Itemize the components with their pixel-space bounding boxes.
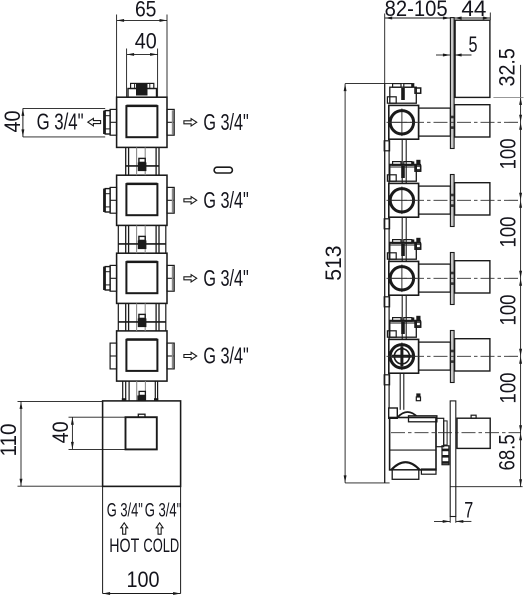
svg-text:G 3/4": G 3/4" xyxy=(203,109,248,135)
svg-text:65: 65 xyxy=(135,0,157,22)
label HOT xyxy=(109,535,139,557)
valve body block V3 (side view) xyxy=(389,261,419,295)
label G 3/4 inch outlet V2 xyxy=(203,187,248,213)
thermostat handle (side view) xyxy=(457,418,490,448)
centerline valve V4 (side view) xyxy=(387,355,521,357)
label COLD xyxy=(143,535,179,557)
bolt above thermostat box xyxy=(137,391,146,400)
valve V2 inner square (cartridge face) xyxy=(126,183,157,215)
left inlet port valve V1 xyxy=(110,109,117,135)
dimension text 100 v2-v3 (rotated) xyxy=(496,217,521,248)
label G 3/4 inch outlet V4 xyxy=(203,343,248,369)
thermostat main block (side view) xyxy=(390,418,436,470)
back rail clip below valve V3 xyxy=(384,297,389,307)
svg-text:G 3/4": G 3/4" xyxy=(203,343,248,369)
thermostat bottom dome xyxy=(391,462,419,470)
top escutcheon box (side view) xyxy=(455,20,490,97)
dimension 40 (thermostat square) xyxy=(69,417,126,449)
thermostat safety button nub xyxy=(138,414,145,417)
left clip at thermostat top xyxy=(389,408,398,418)
connecting pipe between V3 and V4 (side view) xyxy=(389,295,406,339)
slot pill marker xyxy=(214,167,232,173)
thermostat bottom base xyxy=(392,470,419,479)
svg-text:G 3/4": G 3/4" xyxy=(145,501,182,522)
dimension text 65 xyxy=(135,0,157,22)
extension lines 40 xyxy=(127,49,158,98)
valve body block V1 (side view) xyxy=(389,105,419,139)
hollow arrow right outlet V4 xyxy=(184,352,197,359)
valve V4 inner square (cartridge face) xyxy=(126,339,157,371)
label G 3/4 inch outlet V3 xyxy=(203,265,248,291)
trim plate segment V2 xyxy=(450,175,454,227)
plate screws V1 xyxy=(451,116,454,129)
check valve hex (side view) xyxy=(442,446,450,465)
dimension text 7 xyxy=(464,498,473,523)
wall back line (side view) xyxy=(384,84,386,483)
dimension text 513 (rotated) xyxy=(321,245,346,280)
drain bolt between V1 and V2 xyxy=(138,158,147,171)
right outlet port valve V3 xyxy=(167,265,174,291)
thermostat handle safety nub xyxy=(471,415,476,418)
box side extension lines down to 100 dim xyxy=(103,486,181,593)
top cartridge cap above valve 1 xyxy=(128,83,157,97)
pipes from valve V4 down to thermostat box xyxy=(123,381,158,401)
dimension text 44 xyxy=(461,0,486,21)
thermostat right steps xyxy=(444,421,447,445)
thermostat cartridge square xyxy=(126,417,157,449)
centerline valve V2 (side view) xyxy=(387,199,521,201)
hollow arrow right outlet V2 xyxy=(184,197,197,204)
valve body V2 (front view) xyxy=(117,175,167,225)
connector pipes between V3 and V4 xyxy=(118,303,166,331)
svg-text:100: 100 xyxy=(127,567,160,592)
dimension 100 (box width, bottom) xyxy=(103,592,181,595)
thermostat top slab (side view) xyxy=(409,416,437,422)
left hex nut valve V1 xyxy=(104,111,110,134)
thermostat right plate (side view) xyxy=(436,418,444,446)
svg-text:100: 100 xyxy=(496,217,521,248)
label G 3/4 hot bottom xyxy=(107,501,143,522)
union joint line between V3 and V4 xyxy=(118,321,166,323)
dimension text 100 v4-thermostat (rotated) xyxy=(496,373,521,404)
centerline valve V1 (side view) xyxy=(387,121,521,123)
connecting pipe between V1 and V2 (side view) xyxy=(389,139,406,183)
dimension text 40 (rotated, port) xyxy=(0,111,25,133)
svg-text:G 3/4": G 3/4" xyxy=(203,265,248,291)
hollow arrow left (hot inlet) xyxy=(88,118,101,125)
mounting bracket above valve V3 xyxy=(387,239,420,259)
connecting pipe between V2 and V3 (side view) xyxy=(389,217,406,261)
trim plate bottom segment (side view) xyxy=(450,401,456,517)
svg-text:82-105: 82-105 xyxy=(385,0,448,21)
svg-text:40: 40 xyxy=(48,421,73,443)
svg-text:7: 7 xyxy=(464,498,473,523)
valve body block V4 (side view) xyxy=(389,339,419,373)
cartridge circle V2 xyxy=(390,187,417,215)
trim plate segment V4 xyxy=(450,331,454,383)
svg-text:G 3/4": G 3/4" xyxy=(37,109,84,135)
label G 3/4 inch outlet V1 xyxy=(203,109,248,135)
svg-text:100: 100 xyxy=(496,295,521,326)
left inlet port valve V2 xyxy=(110,187,117,213)
chain arrows xyxy=(519,97,522,486)
mounting bracket above valve V1 xyxy=(387,83,420,103)
valve body V4 (front view) xyxy=(117,331,167,381)
plate screws V4 xyxy=(451,350,454,363)
svg-text:44: 44 xyxy=(461,0,486,21)
union joint line between V2 and V3 xyxy=(118,243,166,245)
svg-text:5: 5 xyxy=(469,32,478,57)
centerline valve V3 (side view) xyxy=(387,277,521,279)
handle block V2 (side view) xyxy=(455,183,490,215)
svg-text:G 3/4": G 3/4" xyxy=(203,187,248,213)
chain tick at plate bottom edge xyxy=(493,96,523,98)
union joint between V2 and V3 (side view) xyxy=(389,238,420,248)
cartridge circle V3 xyxy=(390,265,417,293)
dimension text 82-105 xyxy=(385,0,448,21)
dimension 65 (top overall width) xyxy=(117,19,167,22)
dimension text 100 v3-v4 (rotated) xyxy=(496,295,521,326)
dimension 5 (trim plate thickness) xyxy=(436,54,472,57)
trim plate top segment (side view) xyxy=(450,18,454,149)
valve stem V4 (side view) xyxy=(419,342,451,370)
left inlet port valve V3 xyxy=(110,265,117,291)
left hex nut valve V3 xyxy=(104,267,110,290)
handle block V1 (side view) xyxy=(455,105,490,137)
valve V1 inner square (cartridge face) xyxy=(126,105,157,137)
right outlet port valve V4 xyxy=(167,343,174,369)
plate screws V3 xyxy=(451,272,454,285)
svg-text:G 3/4": G 3/4" xyxy=(107,501,143,522)
thermostat bottom right foot xyxy=(421,469,436,474)
back rail clip below valve V1 xyxy=(384,141,389,151)
right dimension chain line xyxy=(520,65,522,487)
dimension text 100 bottom xyxy=(127,567,160,592)
cartridge circle V4 xyxy=(390,343,417,371)
connector pipes between V1 and V2 xyxy=(126,147,159,175)
handle block V4 (side view) xyxy=(455,339,490,371)
dimension 40 (cartridge width) xyxy=(127,53,158,56)
dimension 40 port height (left) xyxy=(21,108,105,136)
svg-text:100: 100 xyxy=(496,138,521,169)
svg-text:40: 40 xyxy=(135,29,157,54)
union tab below V4 (side view) xyxy=(416,393,420,400)
right outlet port valve V2 xyxy=(167,187,174,213)
valve body V1 (front view) xyxy=(117,97,167,147)
connector pipes between V2 and V3 xyxy=(118,225,166,253)
trim plate segment V3 xyxy=(450,253,454,305)
dimension 513 (total height) xyxy=(344,84,415,483)
pipe base nubs on box top xyxy=(122,398,159,401)
dimension 82-105 (wall depth) xyxy=(385,14,451,84)
valve stem V3 (side view) xyxy=(419,264,451,292)
svg-text:100: 100 xyxy=(496,373,521,404)
thermostat box (front view) xyxy=(103,401,181,487)
valve body block V2 (side view) xyxy=(389,183,419,217)
svg-text:40: 40 xyxy=(0,111,25,133)
mounting bracket above valve V2 xyxy=(387,161,420,181)
svg-text:68.5: 68.5 xyxy=(495,434,520,470)
extension lines 65 xyxy=(117,15,167,98)
left hex nut valve V2 xyxy=(104,189,110,212)
dimension text 40 xyxy=(135,29,157,54)
pipe bend cover arc xyxy=(397,412,418,418)
dimension 110 (box height) xyxy=(18,401,181,486)
dimension text 110 (rotated) xyxy=(0,424,21,457)
valve V3 inner square (cartridge face) xyxy=(126,261,157,293)
valve stem V1 (side view) xyxy=(419,108,451,136)
dimension text 100 v1-v2 (rotated) xyxy=(496,138,521,169)
drain bolt between V3 and V4 xyxy=(138,314,147,327)
cartridge circle V1 xyxy=(390,109,417,137)
svg-text:110: 110 xyxy=(0,424,21,457)
left port valve V4 (plain) xyxy=(110,343,117,369)
dimension text 40 (rotated) xyxy=(48,421,73,443)
label G 3/4 cold bottom xyxy=(145,501,182,522)
dimension text 5 xyxy=(469,32,478,57)
drain bolt between V2 and V3 xyxy=(138,236,147,249)
union joint between V3 and V4 (side view) xyxy=(389,316,420,326)
union joint line between V1 and V2 xyxy=(126,165,159,167)
back rail clip below valve V2 xyxy=(384,219,389,229)
svg-text:513: 513 xyxy=(321,245,346,280)
valve body V3 (front view) xyxy=(117,253,167,303)
pipe from V4 down to thermostat (side view) xyxy=(389,373,404,410)
hollow arrow up cold xyxy=(156,523,163,534)
hollow arrow right outlet V3 xyxy=(184,275,197,282)
right outlet port valve V1 xyxy=(167,109,174,135)
union joint between V1 and V2 (side view) xyxy=(389,160,420,170)
chain bottom extension line xyxy=(450,486,522,488)
dimension 44 (handle depth) xyxy=(454,13,490,21)
hollow arrow up hot xyxy=(121,523,128,534)
top spindle bolt (dark) xyxy=(136,84,148,96)
back rail clip below valve V4 xyxy=(384,375,389,385)
svg-text:32.5: 32.5 xyxy=(495,48,520,86)
thermostat centerline (side view) xyxy=(391,432,521,434)
hollow arrow right outlet V1 xyxy=(184,119,197,126)
dimension text 68.5 (rotated) xyxy=(495,434,520,470)
svg-text:COLD: COLD xyxy=(143,535,179,557)
dimension text 32.5 (rotated) xyxy=(495,48,520,86)
svg-text:HOT: HOT xyxy=(109,535,139,557)
mounting bracket above valve V4 xyxy=(387,317,420,337)
label G 3/4 inch hot inlet xyxy=(37,109,84,135)
valve stem V2 (side view) xyxy=(419,186,451,214)
handle block V3 (side view) xyxy=(455,261,490,293)
plate screws V2 xyxy=(451,194,454,207)
dimension 7 (plate offset) xyxy=(434,517,471,523)
